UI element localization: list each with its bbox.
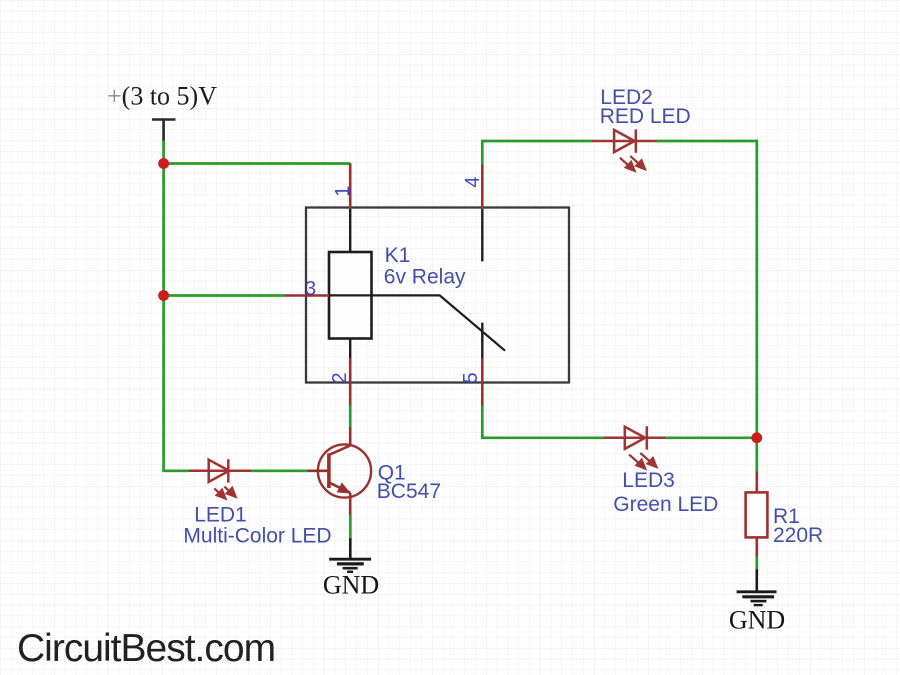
relay switch arm — [372, 295, 506, 350]
LED2 light arrows — [620, 156, 645, 171]
relay internal lead pin 5 — [481, 323, 483, 358]
svg-text:5: 5 — [460, 372, 482, 383]
ground symbol (right, under R1) — [737, 569, 777, 605]
junction A (top rail) — [158, 158, 169, 169]
wire: LED3 cathode to junction C — [666, 436, 758, 439]
Q1 emitter arrow — [338, 483, 350, 493]
svg-text:Multi-Color LED: Multi-Color LED — [183, 524, 331, 547]
wire: Q1 emitter to ground — [349, 514, 352, 539]
wire: right vertical rail down to junction C — [755, 140, 758, 439]
wire: relay pin 5 down and right to LED3 — [482, 405, 604, 438]
svg-text:CircuitBest.com: CircuitBest.com — [17, 627, 275, 670]
junction B (pin 3 rail) — [158, 290, 169, 301]
svg-text:1: 1 — [332, 186, 354, 197]
relay internal lead pin 4 — [481, 208, 483, 262]
resistor R1 — [746, 472, 768, 557]
junction C (LED3 / R1) — [751, 432, 762, 443]
relay coil — [329, 252, 372, 339]
svg-text:Green LED: Green LED — [613, 493, 718, 516]
svg-text:LED1: LED1 — [194, 504, 247, 527]
wire: relay pin 4 up to LED2 row — [481, 141, 484, 165]
LED3 (green LED) — [604, 426, 666, 449]
wire: R1 to ground — [755, 556, 758, 570]
pin 2 stub — [349, 358, 352, 405]
wire: LED1 cathode to Q1 base — [251, 469, 308, 472]
wire: rail corner to LED1 anode — [162, 469, 189, 472]
svg-text:6v Relay: 6v Relay — [384, 265, 466, 288]
pin 3 stub — [285, 294, 330, 297]
wire: pin4 corner to LED2 anode — [481, 140, 592, 143]
ground symbol (left, under Q1) — [329, 538, 371, 572]
wire: supply to junction A and left vertical rail — [162, 141, 165, 472]
relay K1 box — [306, 208, 569, 383]
svg-text:GND: GND — [323, 571, 379, 600]
svg-text:GND: GND — [729, 606, 785, 635]
svg-text:3: 3 — [305, 278, 316, 300]
pin 1 stub — [349, 163, 352, 209]
svg-text:K1: K1 — [385, 244, 411, 267]
Q1 emitter stub — [349, 493, 352, 515]
svg-text:LED3: LED3 — [622, 469, 675, 492]
wire: top rail to relay pin 1 — [162, 162, 350, 165]
wire: junction C to R1 — [755, 438, 758, 472]
LED1 (multi-color LED) — [189, 459, 251, 482]
LED2 (red LED) — [592, 129, 656, 152]
svg-text:2: 2 — [329, 372, 351, 383]
Q1 collector stub — [349, 427, 352, 446]
svg-text:RED LED: RED LED — [600, 105, 691, 128]
relay coil crossing line — [329, 294, 372, 296]
wire: relay pin 2 to Q1 collector — [349, 405, 352, 428]
LED1 light arrows — [214, 487, 235, 499]
svg-text:4: 4 — [462, 176, 484, 187]
wire: junction B to relay pin 3 — [162, 294, 284, 297]
relay internal lead pin 2 — [349, 339, 351, 359]
pin 5 stub — [481, 358, 484, 405]
relay internal lead pin 1 — [349, 208, 351, 253]
wire: LED2 cathode to right rail — [656, 140, 758, 143]
supply +(3 to 5)V symbol — [152, 120, 176, 142]
svg-text:+(3 to 5)V: +(3 to 5)V — [107, 82, 217, 111]
pin 4 stub — [481, 165, 484, 209]
transistor Q1 BC547 — [318, 444, 371, 497]
LED3 light arrows — [629, 453, 656, 469]
svg-text:220R: 220R — [773, 524, 823, 547]
Q1 base stub — [307, 469, 329, 472]
svg-text:BC547: BC547 — [377, 480, 441, 503]
